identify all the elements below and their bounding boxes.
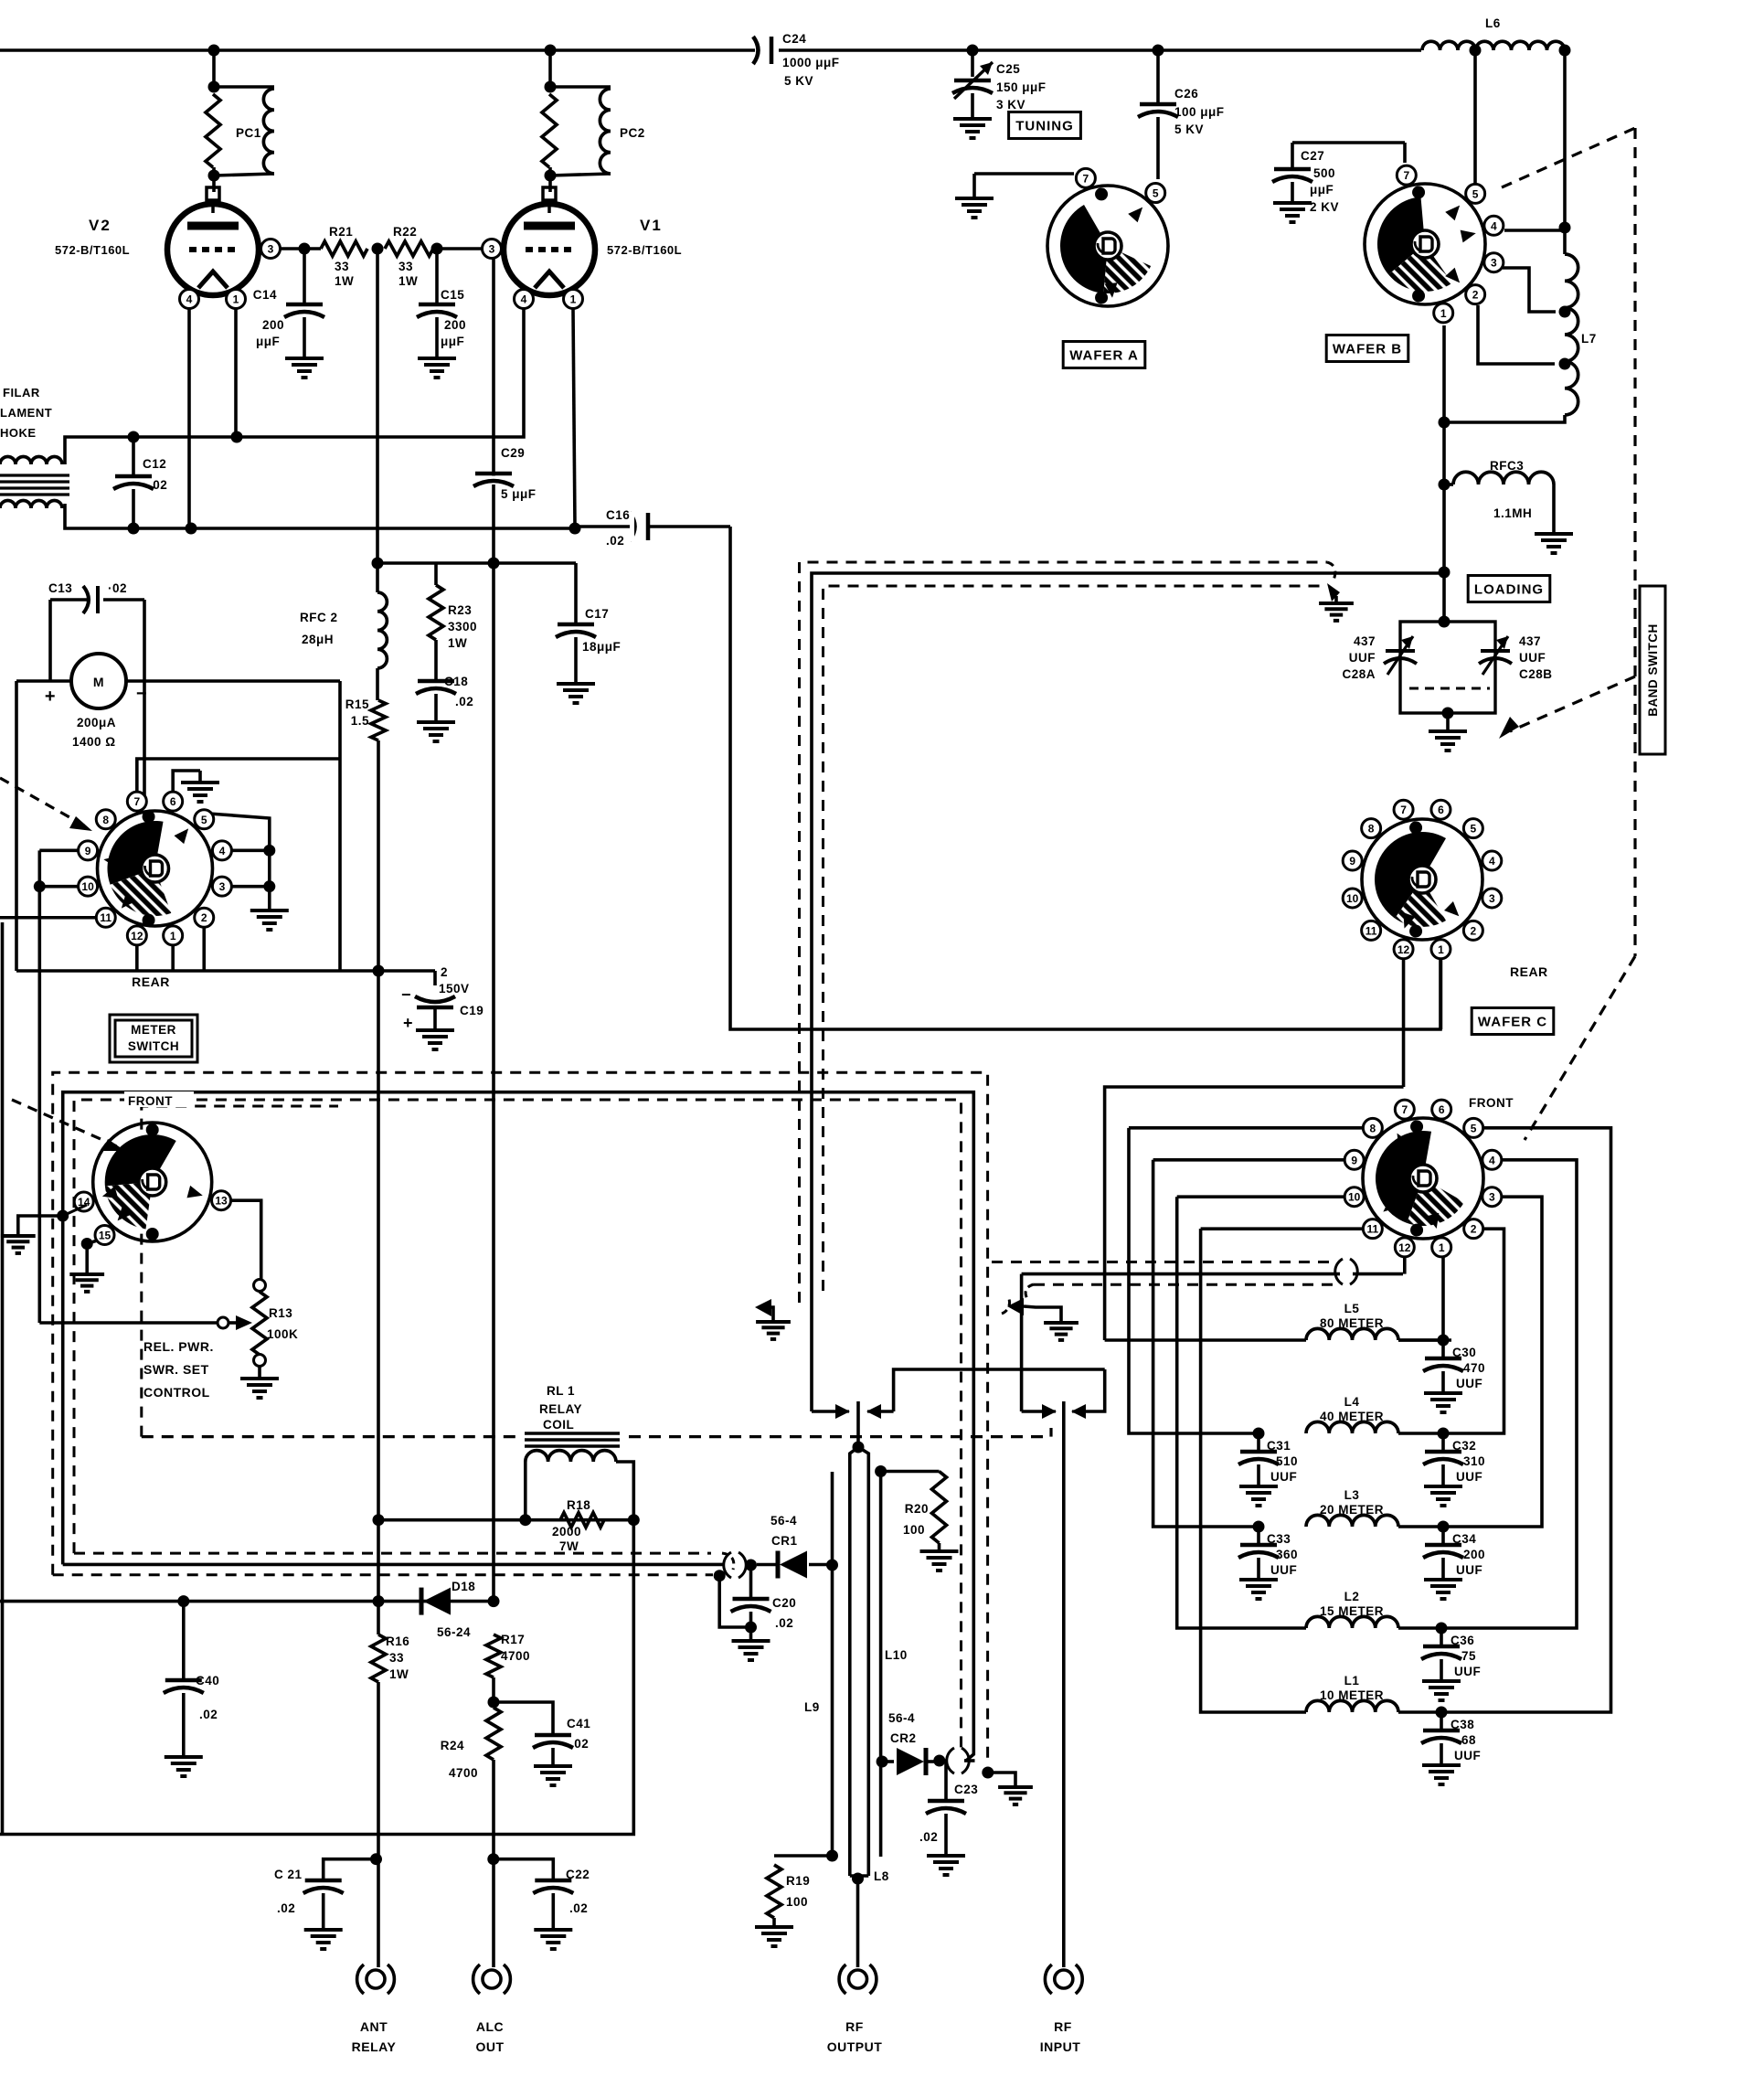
svg-text:+: +: [403, 1014, 413, 1032]
svg-text:RELAY: RELAY: [539, 1402, 582, 1416]
svg-text:100K: 100K: [267, 1327, 298, 1341]
svg-text:200: 200: [262, 318, 284, 332]
svg-text:UUF: UUF: [1456, 1377, 1482, 1390]
svg-text:TUNING: TUNING: [1015, 118, 1074, 133]
svg-text:C25: C25: [996, 62, 1020, 76]
svg-text:RF: RF: [1054, 2019, 1072, 2034]
svg-text:5: 5: [1471, 1122, 1477, 1134]
svg-text:R17: R17: [501, 1633, 525, 1646]
svg-text:200μA: 200μA: [77, 716, 116, 729]
svg-text:11: 11: [1367, 1223, 1379, 1236]
svg-text:μμF: μμF: [441, 335, 464, 348]
svg-text:68: 68: [1461, 1733, 1476, 1747]
svg-text:10: 10: [1348, 1191, 1361, 1204]
svg-text:437: 437: [1519, 634, 1541, 648]
svg-text:100 μμF: 100 μμF: [1174, 105, 1225, 119]
svg-text:1: 1: [170, 930, 176, 942]
svg-text:UUF: UUF: [1270, 1563, 1297, 1577]
svg-text:2 KV: 2 KV: [1310, 200, 1339, 214]
svg-text:SWITCH: SWITCH: [128, 1039, 179, 1053]
svg-text:FILAR: FILAR: [3, 386, 40, 399]
svg-text:L7: L7: [1581, 332, 1597, 346]
svg-text:V2: V2: [89, 217, 112, 234]
svg-text:C24: C24: [782, 32, 806, 46]
svg-text:FRONT: FRONT: [1469, 1096, 1514, 1110]
svg-text:μμF: μμF: [1310, 183, 1334, 197]
svg-text:INPUT: INPUT: [1040, 2039, 1081, 2054]
svg-text:5: 5: [201, 814, 207, 826]
svg-text:V1: V1: [640, 217, 663, 234]
svg-text:L9: L9: [804, 1700, 820, 1714]
svg-text:4700: 4700: [501, 1649, 530, 1663]
svg-text:4: 4: [521, 293, 527, 306]
svg-text:μμF: μμF: [256, 335, 280, 348]
svg-text:11: 11: [100, 911, 112, 924]
svg-text:.02: .02: [455, 695, 473, 708]
svg-text:C19: C19: [460, 1004, 484, 1017]
svg-text:9: 9: [1351, 1154, 1357, 1166]
svg-text:.02: .02: [775, 1616, 793, 1630]
svg-text:5 KV: 5 KV: [1174, 122, 1204, 136]
svg-text:1W: 1W: [448, 636, 467, 650]
svg-text:2: 2: [1471, 1223, 1477, 1236]
svg-text:UUF: UUF: [1454, 1665, 1481, 1678]
svg-text:R24: R24: [441, 1739, 464, 1752]
svg-text:R18: R18: [567, 1498, 590, 1512]
svg-text:7: 7: [1403, 169, 1409, 182]
svg-text:COIL: COIL: [543, 1418, 574, 1432]
svg-text:ALC: ALC: [476, 2019, 504, 2034]
svg-text:−: −: [401, 985, 411, 1004]
svg-text:5: 5: [1153, 187, 1159, 200]
svg-text:572-B/T160L: 572-B/T160L: [55, 243, 130, 257]
svg-text:C12: C12: [143, 457, 166, 471]
svg-text:UUF: UUF: [1456, 1563, 1482, 1577]
svg-text:C20: C20: [772, 1596, 796, 1610]
svg-text:C14: C14: [253, 288, 277, 302]
svg-text:FRONT: FRONT: [128, 1094, 173, 1108]
svg-text:OUTPUT: OUTPUT: [827, 2039, 883, 2054]
svg-text:8: 8: [1368, 823, 1375, 836]
svg-text:500: 500: [1313, 166, 1335, 180]
svg-text:C 21: C 21: [274, 1868, 303, 1881]
svg-text:1.5: 1.5: [351, 714, 369, 728]
svg-text:470: 470: [1463, 1361, 1485, 1375]
svg-text:L3: L3: [1344, 1488, 1360, 1502]
svg-text:3300: 3300: [448, 620, 477, 634]
svg-text:150 μμF: 150 μμF: [996, 80, 1047, 94]
svg-text:7: 7: [1401, 1103, 1408, 1116]
svg-text:200: 200: [1463, 1548, 1485, 1561]
svg-text:C33: C33: [1267, 1532, 1291, 1546]
svg-text:ANT: ANT: [360, 2019, 388, 2034]
svg-text:HOKE: HOKE: [0, 426, 37, 440]
svg-text:12: 12: [1398, 1241, 1411, 1254]
svg-text:RL 1: RL 1: [547, 1384, 575, 1398]
svg-text:OUT: OUT: [475, 2039, 504, 2054]
svg-text:1: 1: [233, 293, 239, 306]
svg-text:C41: C41: [567, 1717, 590, 1730]
svg-text:33: 33: [335, 260, 349, 273]
svg-text:1W: 1W: [398, 274, 418, 288]
svg-text:7: 7: [133, 795, 140, 808]
svg-text:11: 11: [1366, 924, 1377, 937]
svg-text:6: 6: [1438, 804, 1444, 816]
svg-text:7: 7: [1083, 172, 1089, 185]
svg-text:UUF: UUF: [1349, 651, 1376, 665]
svg-text:4: 4: [219, 845, 226, 857]
svg-text:5: 5: [1472, 187, 1479, 200]
svg-text:L6: L6: [1485, 16, 1501, 30]
svg-text:2000: 2000: [552, 1525, 581, 1539]
svg-text:2: 2: [1471, 924, 1477, 937]
svg-text:.02: .02: [570, 1737, 589, 1751]
svg-text:LOADING: LOADING: [1474, 581, 1544, 597]
svg-text:3: 3: [268, 243, 274, 256]
svg-text:1: 1: [570, 293, 577, 306]
svg-text:C18: C18: [444, 675, 468, 688]
svg-text:2: 2: [441, 965, 448, 979]
svg-text:·02: ·02: [108, 581, 127, 595]
svg-text:PC1: PC1: [236, 126, 261, 140]
svg-text:R21: R21: [329, 225, 353, 239]
svg-text:12: 12: [1397, 943, 1410, 956]
svg-text:C40: C40: [196, 1674, 219, 1688]
svg-text:1: 1: [1439, 1241, 1445, 1254]
svg-text:L5: L5: [1344, 1302, 1360, 1315]
svg-text:28μH: 28μH: [302, 633, 334, 646]
svg-text:C23: C23: [954, 1783, 978, 1796]
svg-text:8: 8: [1370, 1122, 1376, 1134]
svg-text:CONTROL: CONTROL: [143, 1385, 210, 1400]
svg-text:C30: C30: [1452, 1346, 1476, 1359]
svg-text:572-B/T160L: 572-B/T160L: [607, 243, 682, 257]
svg-text:1400 Ω: 1400 Ω: [72, 735, 116, 749]
svg-text:4: 4: [186, 293, 193, 306]
svg-text:5: 5: [1471, 823, 1477, 836]
svg-text:C13: C13: [48, 581, 72, 595]
svg-text:510: 510: [1276, 1454, 1298, 1468]
svg-text:+: +: [45, 687, 56, 707]
svg-text:4700: 4700: [449, 1766, 478, 1780]
svg-text:310: 310: [1463, 1454, 1485, 1468]
svg-text:RF: RF: [845, 2019, 864, 2034]
svg-text:56-24: 56-24: [437, 1625, 471, 1639]
svg-text:R19: R19: [786, 1874, 810, 1888]
svg-text:10: 10: [1346, 892, 1359, 905]
svg-text:PC2: PC2: [620, 126, 645, 140]
svg-text:C28B: C28B: [1519, 667, 1553, 681]
svg-text:2: 2: [201, 911, 207, 924]
svg-text:C28A: C28A: [1342, 667, 1376, 681]
svg-text:3: 3: [1489, 892, 1495, 905]
svg-text:WAFER A: WAFER A: [1069, 347, 1139, 363]
svg-text:.02: .02: [199, 1708, 218, 1721]
svg-text:.02: .02: [149, 478, 167, 492]
svg-text:200: 200: [444, 318, 466, 332]
svg-text:WAFER C: WAFER C: [1478, 1014, 1547, 1029]
svg-text:C32: C32: [1452, 1439, 1476, 1453]
svg-text:15 METER: 15 METER: [1320, 1604, 1384, 1618]
svg-text:L1: L1: [1344, 1674, 1360, 1688]
svg-text:R23: R23: [448, 603, 472, 617]
svg-text:4: 4: [1489, 1154, 1495, 1166]
svg-text:6: 6: [170, 795, 176, 808]
svg-text:C29: C29: [501, 446, 525, 460]
svg-text:33: 33: [389, 1651, 404, 1665]
svg-text:3: 3: [1491, 257, 1497, 270]
svg-text:10 METER: 10 METER: [1320, 1688, 1384, 1702]
svg-text:R15: R15: [345, 697, 369, 711]
svg-text:33: 33: [398, 260, 413, 273]
svg-text:1W: 1W: [389, 1667, 409, 1681]
svg-text:100: 100: [786, 1895, 808, 1909]
svg-text:75: 75: [1461, 1649, 1476, 1663]
svg-text:80 METER: 80 METER: [1320, 1316, 1384, 1330]
svg-text:REAR: REAR: [1510, 964, 1548, 979]
svg-text:UUF: UUF: [1519, 651, 1546, 665]
svg-text:3: 3: [219, 880, 226, 893]
svg-text:9: 9: [85, 845, 91, 857]
svg-text:METER: METER: [131, 1023, 176, 1037]
svg-text:C16: C16: [606, 508, 630, 522]
svg-text:1.1MH: 1.1MH: [1493, 506, 1532, 520]
svg-text:1: 1: [1438, 943, 1444, 956]
svg-text:L4: L4: [1344, 1395, 1360, 1409]
svg-text:4: 4: [1491, 219, 1497, 232]
svg-text:56-4: 56-4: [888, 1711, 915, 1725]
svg-text:WAFER B: WAFER B: [1333, 341, 1402, 357]
svg-text:18μμF: 18μμF: [582, 640, 621, 654]
svg-text:R20: R20: [905, 1502, 929, 1516]
svg-text:C27: C27: [1301, 149, 1324, 163]
svg-text:40 METER: 40 METER: [1320, 1410, 1384, 1423]
svg-text:R22: R22: [393, 225, 417, 239]
svg-text:1W: 1W: [335, 274, 354, 288]
svg-text:CR1: CR1: [771, 1534, 798, 1548]
svg-text:RFC 2: RFC 2: [300, 611, 338, 624]
svg-text:LAMENT: LAMENT: [0, 406, 52, 420]
svg-text:10: 10: [81, 880, 94, 893]
svg-text:L2: L2: [1344, 1590, 1360, 1603]
svg-text:3: 3: [1489, 1191, 1495, 1204]
svg-text:9: 9: [1349, 855, 1355, 868]
svg-text:C22: C22: [566, 1868, 590, 1881]
svg-text:13: 13: [215, 1195, 228, 1208]
svg-text:C34: C34: [1452, 1532, 1476, 1546]
svg-text:6: 6: [1439, 1103, 1445, 1116]
svg-text:1000 μμF: 1000 μμF: [782, 56, 840, 69]
svg-text:7W: 7W: [559, 1539, 579, 1553]
svg-text:REL. PWR.: REL. PWR.: [143, 1339, 214, 1354]
svg-text:12: 12: [131, 930, 143, 942]
svg-text:5 KV: 5 KV: [784, 74, 813, 88]
svg-text:56-4: 56-4: [770, 1514, 797, 1528]
svg-text:3: 3: [489, 243, 495, 256]
svg-text:20 METER: 20 METER: [1320, 1503, 1384, 1517]
svg-text:M: M: [93, 675, 104, 689]
svg-text:RELAY: RELAY: [352, 2039, 397, 2054]
svg-text:L8: L8: [874, 1869, 889, 1883]
svg-text:1: 1: [1440, 307, 1447, 320]
svg-text:.02: .02: [277, 1901, 295, 1915]
svg-text:8: 8: [102, 814, 109, 826]
svg-text:SWR. SET: SWR. SET: [143, 1362, 209, 1377]
svg-text:CR2: CR2: [890, 1731, 917, 1745]
svg-text:UUF: UUF: [1454, 1749, 1481, 1762]
svg-text:.02: .02: [919, 1830, 938, 1844]
svg-text:.02: .02: [569, 1901, 588, 1915]
svg-text:437: 437: [1354, 634, 1376, 648]
svg-text:L10: L10: [885, 1648, 908, 1662]
svg-text:15: 15: [99, 1229, 112, 1241]
svg-text:C17: C17: [585, 607, 609, 621]
svg-text:5 μμF: 5 μμF: [501, 487, 537, 501]
svg-text:REAR: REAR: [132, 974, 170, 989]
svg-text:100: 100: [903, 1523, 925, 1537]
svg-text:150V: 150V: [439, 982, 470, 996]
svg-text:BAND SWITCH: BAND SWITCH: [1646, 623, 1660, 717]
svg-text:7: 7: [1400, 804, 1407, 816]
svg-text:C15: C15: [441, 288, 464, 302]
svg-text:R13: R13: [269, 1306, 292, 1320]
svg-text:C38: C38: [1451, 1718, 1474, 1731]
svg-text:RFC3: RFC3: [1490, 459, 1524, 473]
svg-text:UUF: UUF: [1270, 1470, 1297, 1484]
svg-text:C31: C31: [1267, 1439, 1291, 1453]
svg-text:UUF: UUF: [1456, 1470, 1482, 1484]
svg-text:C36: C36: [1451, 1634, 1474, 1647]
svg-text:3 KV: 3 KV: [996, 98, 1025, 112]
svg-text:R16: R16: [386, 1634, 409, 1648]
svg-text:4: 4: [1489, 855, 1495, 868]
svg-text:C26: C26: [1174, 87, 1198, 101]
svg-text:2: 2: [1472, 289, 1479, 302]
svg-text:D18: D18: [452, 1580, 475, 1593]
svg-text:.02: .02: [606, 534, 624, 548]
svg-text:360: 360: [1276, 1548, 1298, 1561]
